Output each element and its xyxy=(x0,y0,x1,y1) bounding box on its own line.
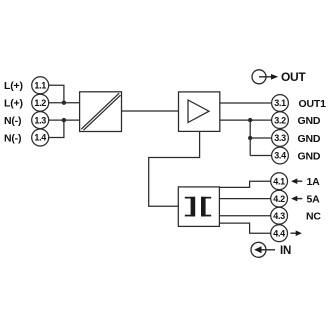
svg-text:1.1: 1.1 xyxy=(34,81,46,91)
wire terminal 1.2 to converter input xyxy=(49,102,80,104)
power converter U1 box xyxy=(80,92,122,132)
svg-text:5A: 5A xyxy=(307,193,321,205)
wire amplifier output to terminal 3.1 xyxy=(220,102,272,104)
wire amplifier to transformer T1 xyxy=(149,131,200,206)
wire transformer to terminal 4.3 xyxy=(219,215,270,217)
svg-text:OUT: OUT xyxy=(281,70,306,84)
terminal 3.3 xyxy=(272,130,289,147)
svg-text:4.1: 4.1 xyxy=(273,176,285,186)
terminal 1.2 xyxy=(32,94,49,111)
svg-text:L(+): L(+) xyxy=(4,98,23,110)
svg-text:L(+): L(+) xyxy=(4,80,23,92)
svg-text:3.4: 3.4 xyxy=(274,151,286,161)
terminal 3.2 xyxy=(272,112,289,129)
amplifier A1 triangle xyxy=(188,100,209,123)
amplifier A1 box xyxy=(179,92,220,131)
svg-text:IN: IN xyxy=(280,245,291,257)
node J2 xyxy=(62,118,66,122)
svg-text:3.1: 3.1 xyxy=(274,98,286,108)
wire terminal 1.3 to converter input xyxy=(49,119,80,121)
svg-text:1.3: 1.3 xyxy=(34,115,46,125)
svg-text:4.3: 4.3 xyxy=(273,211,285,221)
svg-text:GND: GND xyxy=(298,151,321,163)
wire terminal 1.1 to node J1 xyxy=(49,85,64,102)
svg-text:3.2: 3.2 xyxy=(274,115,286,125)
terminal 4.1 xyxy=(271,173,288,190)
transformer T1 left core xyxy=(185,197,195,217)
terminal 1.3 xyxy=(32,112,49,129)
wire GND bus to terminal 3.4 xyxy=(250,155,271,157)
svg-text:4.4: 4.4 xyxy=(273,228,285,238)
arrow out of terminal 4.4 xyxy=(291,230,302,236)
svg-text:1.2: 1.2 xyxy=(34,98,46,108)
terminal 1.4 xyxy=(32,129,49,146)
arrow into terminal 4.2 xyxy=(291,196,302,202)
terminal 3.4 xyxy=(272,147,289,164)
wire GND bus vertical xyxy=(249,120,251,155)
output port symbol OUT xyxy=(252,70,306,84)
transformer T1 right core xyxy=(201,197,211,217)
svg-text:1A: 1A xyxy=(307,176,321,188)
node J1 xyxy=(62,101,66,105)
svg-text:N(-): N(-) xyxy=(4,115,21,127)
svg-text:OUT1: OUT1 xyxy=(299,98,327,110)
svg-text:3.3: 3.3 xyxy=(274,133,286,143)
node J3 xyxy=(248,118,252,122)
node J4 xyxy=(248,136,252,140)
transformer T1 box xyxy=(178,187,219,227)
svg-text:NC: NC xyxy=(306,211,321,223)
svg-text:4.2: 4.2 xyxy=(273,194,285,204)
svg-text:N(-): N(-) xyxy=(4,132,21,144)
svg-text:GND: GND xyxy=(298,115,321,127)
wire transformer to terminal 4.4 xyxy=(219,223,270,233)
svg-text:GND: GND xyxy=(298,133,321,145)
arrow into terminal 4.1 xyxy=(291,178,302,184)
power converter U1 diagonal xyxy=(81,93,119,129)
wire transformer to terminal 4.2 xyxy=(219,198,270,200)
terminal 4.2 xyxy=(271,190,288,207)
wire GND bus to terminal 3.3 xyxy=(250,137,271,139)
terminal 1.1 xyxy=(32,77,49,94)
svg-text:1.4: 1.4 xyxy=(34,133,46,143)
input port symbol IN xyxy=(251,242,291,257)
wire amplifier output to terminal 3.2 xyxy=(220,119,272,121)
terminal 4.4 xyxy=(271,225,288,242)
wire terminal 1.4 to node J2 xyxy=(49,120,64,137)
terminal 3.1 xyxy=(272,95,289,112)
wire converter output to amplifier input xyxy=(122,110,179,112)
wire transformer to terminal 4.1 xyxy=(219,181,270,187)
terminal 4.3 xyxy=(271,207,288,224)
